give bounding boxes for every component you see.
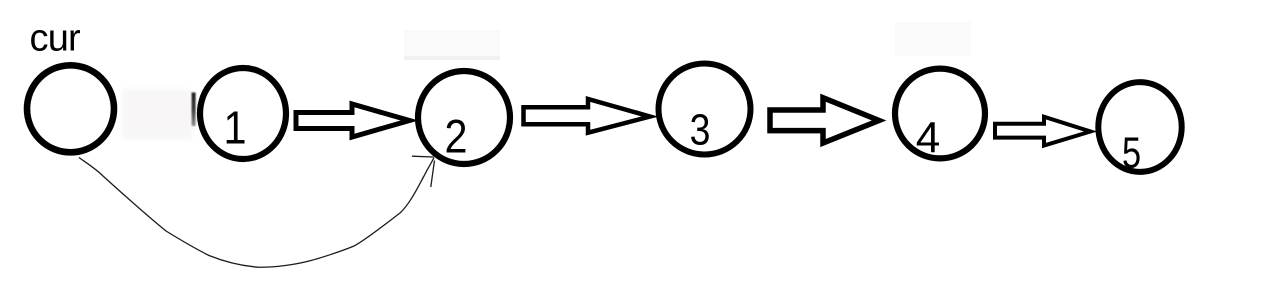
svg-text:1: 1 — [223, 103, 246, 155]
svg-text:5: 5 — [1122, 128, 1141, 177]
svg-text:3: 3 — [690, 105, 711, 155]
svg-text:2: 2 — [444, 111, 467, 163]
svg-text:4: 4 — [916, 114, 940, 163]
svg-text:cur: cur — [30, 18, 82, 60]
